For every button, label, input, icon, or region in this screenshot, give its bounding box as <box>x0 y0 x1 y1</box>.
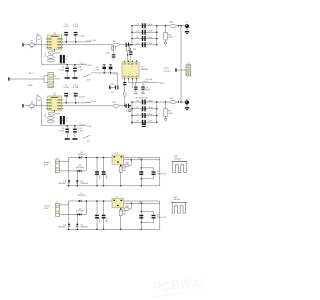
svg-text:U1: U1 <box>53 33 55 35</box>
svg-text:0.1uF: 0.1uF <box>59 69 65 71</box>
svg-text:R40: R40 <box>125 206 128 208</box>
svg-text:SUF4007: SUF4007 <box>78 154 86 156</box>
svg-text:240: 240 <box>123 213 126 215</box>
svg-text:L3 1uH: L3 1uH <box>146 79 153 81</box>
svg-text:1.5uF: 1.5uF <box>147 43 153 45</box>
svg-text:SUF4007: SUF4007 <box>80 227 88 229</box>
svg-text:0.1uF: 0.1uF <box>73 87 79 89</box>
svg-text:C32: C32 <box>111 83 114 85</box>
svg-text:U4: U4 <box>116 197 118 199</box>
svg-text:0.1uF: 0.1uF <box>78 69 84 71</box>
svg-text:SUF4007: SUF4007 <box>76 211 84 213</box>
svg-text:SUF4007: SUF4007 <box>80 183 88 185</box>
svg-text:LM4880: LM4880 <box>140 69 148 71</box>
svg-text:R40: R40 <box>125 162 128 164</box>
svg-text:J4: J4 <box>56 158 58 160</box>
svg-text:100uF: 100uF <box>145 90 151 92</box>
svg-text:1.5uF: 1.5uF <box>147 121 153 123</box>
svg-text:1.5uF: 1.5uF <box>147 107 153 109</box>
svg-text:0.1uF: 0.1uF <box>105 175 107 179</box>
svg-text:HS-001: HS-001 <box>174 158 180 160</box>
svg-text:HS-001: HS-001 <box>174 199 180 201</box>
svg-text:1.5uF: 1.5uF <box>91 101 97 103</box>
svg-text:0.1uF: 0.1uF <box>63 87 69 89</box>
svg-text:470uF: 470uF <box>98 218 100 223</box>
svg-text:C35 100uF 10V: C35 100uF 10V <box>135 98 149 100</box>
svg-text:1.5uF: 1.5uF <box>91 40 97 42</box>
svg-text:IN R: IN R <box>28 85 33 87</box>
svg-text:1u: 1u <box>66 59 68 61</box>
svg-text:100uF 25V: 100uF 25V <box>157 217 167 219</box>
svg-text:1u: 1u <box>66 120 68 122</box>
svg-text:100k: 100k <box>168 37 172 39</box>
svg-text:6-2V: 6-2V <box>44 208 49 210</box>
svg-text:0.1uF: 0.1uF <box>79 36 85 38</box>
svg-text:1.5uF: 1.5uF <box>147 114 153 116</box>
svg-text:240: 240 <box>123 170 126 172</box>
svg-text:U1: U1 <box>53 94 55 96</box>
svg-text:0.1uF: 0.1uF <box>59 130 65 132</box>
svg-text:1.5uF: 1.5uF <box>147 31 153 33</box>
svg-text:4.7uF: 4.7uF <box>94 70 100 72</box>
svg-text:2.2uF: 2.2uF <box>126 111 132 113</box>
svg-text:1.5uF: 1.5uF <box>147 37 153 39</box>
svg-text:R30: R30 <box>106 53 109 55</box>
svg-text:OUT L: OUT L <box>164 68 171 70</box>
svg-text:VDD: VDD <box>160 83 165 85</box>
svg-text:100uF 25V: 100uF 25V <box>157 174 167 176</box>
svg-text:SUF4007: SUF4007 <box>76 167 84 169</box>
svg-text:3.3uF: 3.3uF <box>147 24 153 26</box>
svg-text:R31: R31 <box>133 49 136 51</box>
svg-text:0.1uF: 0.1uF <box>78 130 84 132</box>
svg-text:0.1uF: 0.1uF <box>63 26 69 28</box>
svg-text:0.1uF: 0.1uF <box>105 218 107 222</box>
svg-text:4.7uF: 4.7uF <box>112 73 118 75</box>
svg-text:0.1uF: 0.1uF <box>79 97 85 99</box>
svg-text:6-2V: 6-2V <box>44 165 49 167</box>
svg-text:100k: 100k <box>168 113 172 115</box>
svg-text:OUT R: OUT R <box>164 71 171 73</box>
svg-text:J4: J4 <box>56 202 58 204</box>
svg-text:470uF: 470uF <box>98 175 100 180</box>
svg-text:SUF4007: SUF4007 <box>78 195 86 197</box>
svg-text:3.3uF: 3.3uF <box>147 100 153 102</box>
svg-text:SUF4007: SUF4007 <box>58 227 66 229</box>
svg-text:SUF4007: SUF4007 <box>58 183 66 185</box>
svg-text:0.1uF: 0.1uF <box>73 26 79 28</box>
svg-text:CON4: CON4 <box>54 78 60 80</box>
svg-text:U4: U4 <box>116 153 118 155</box>
